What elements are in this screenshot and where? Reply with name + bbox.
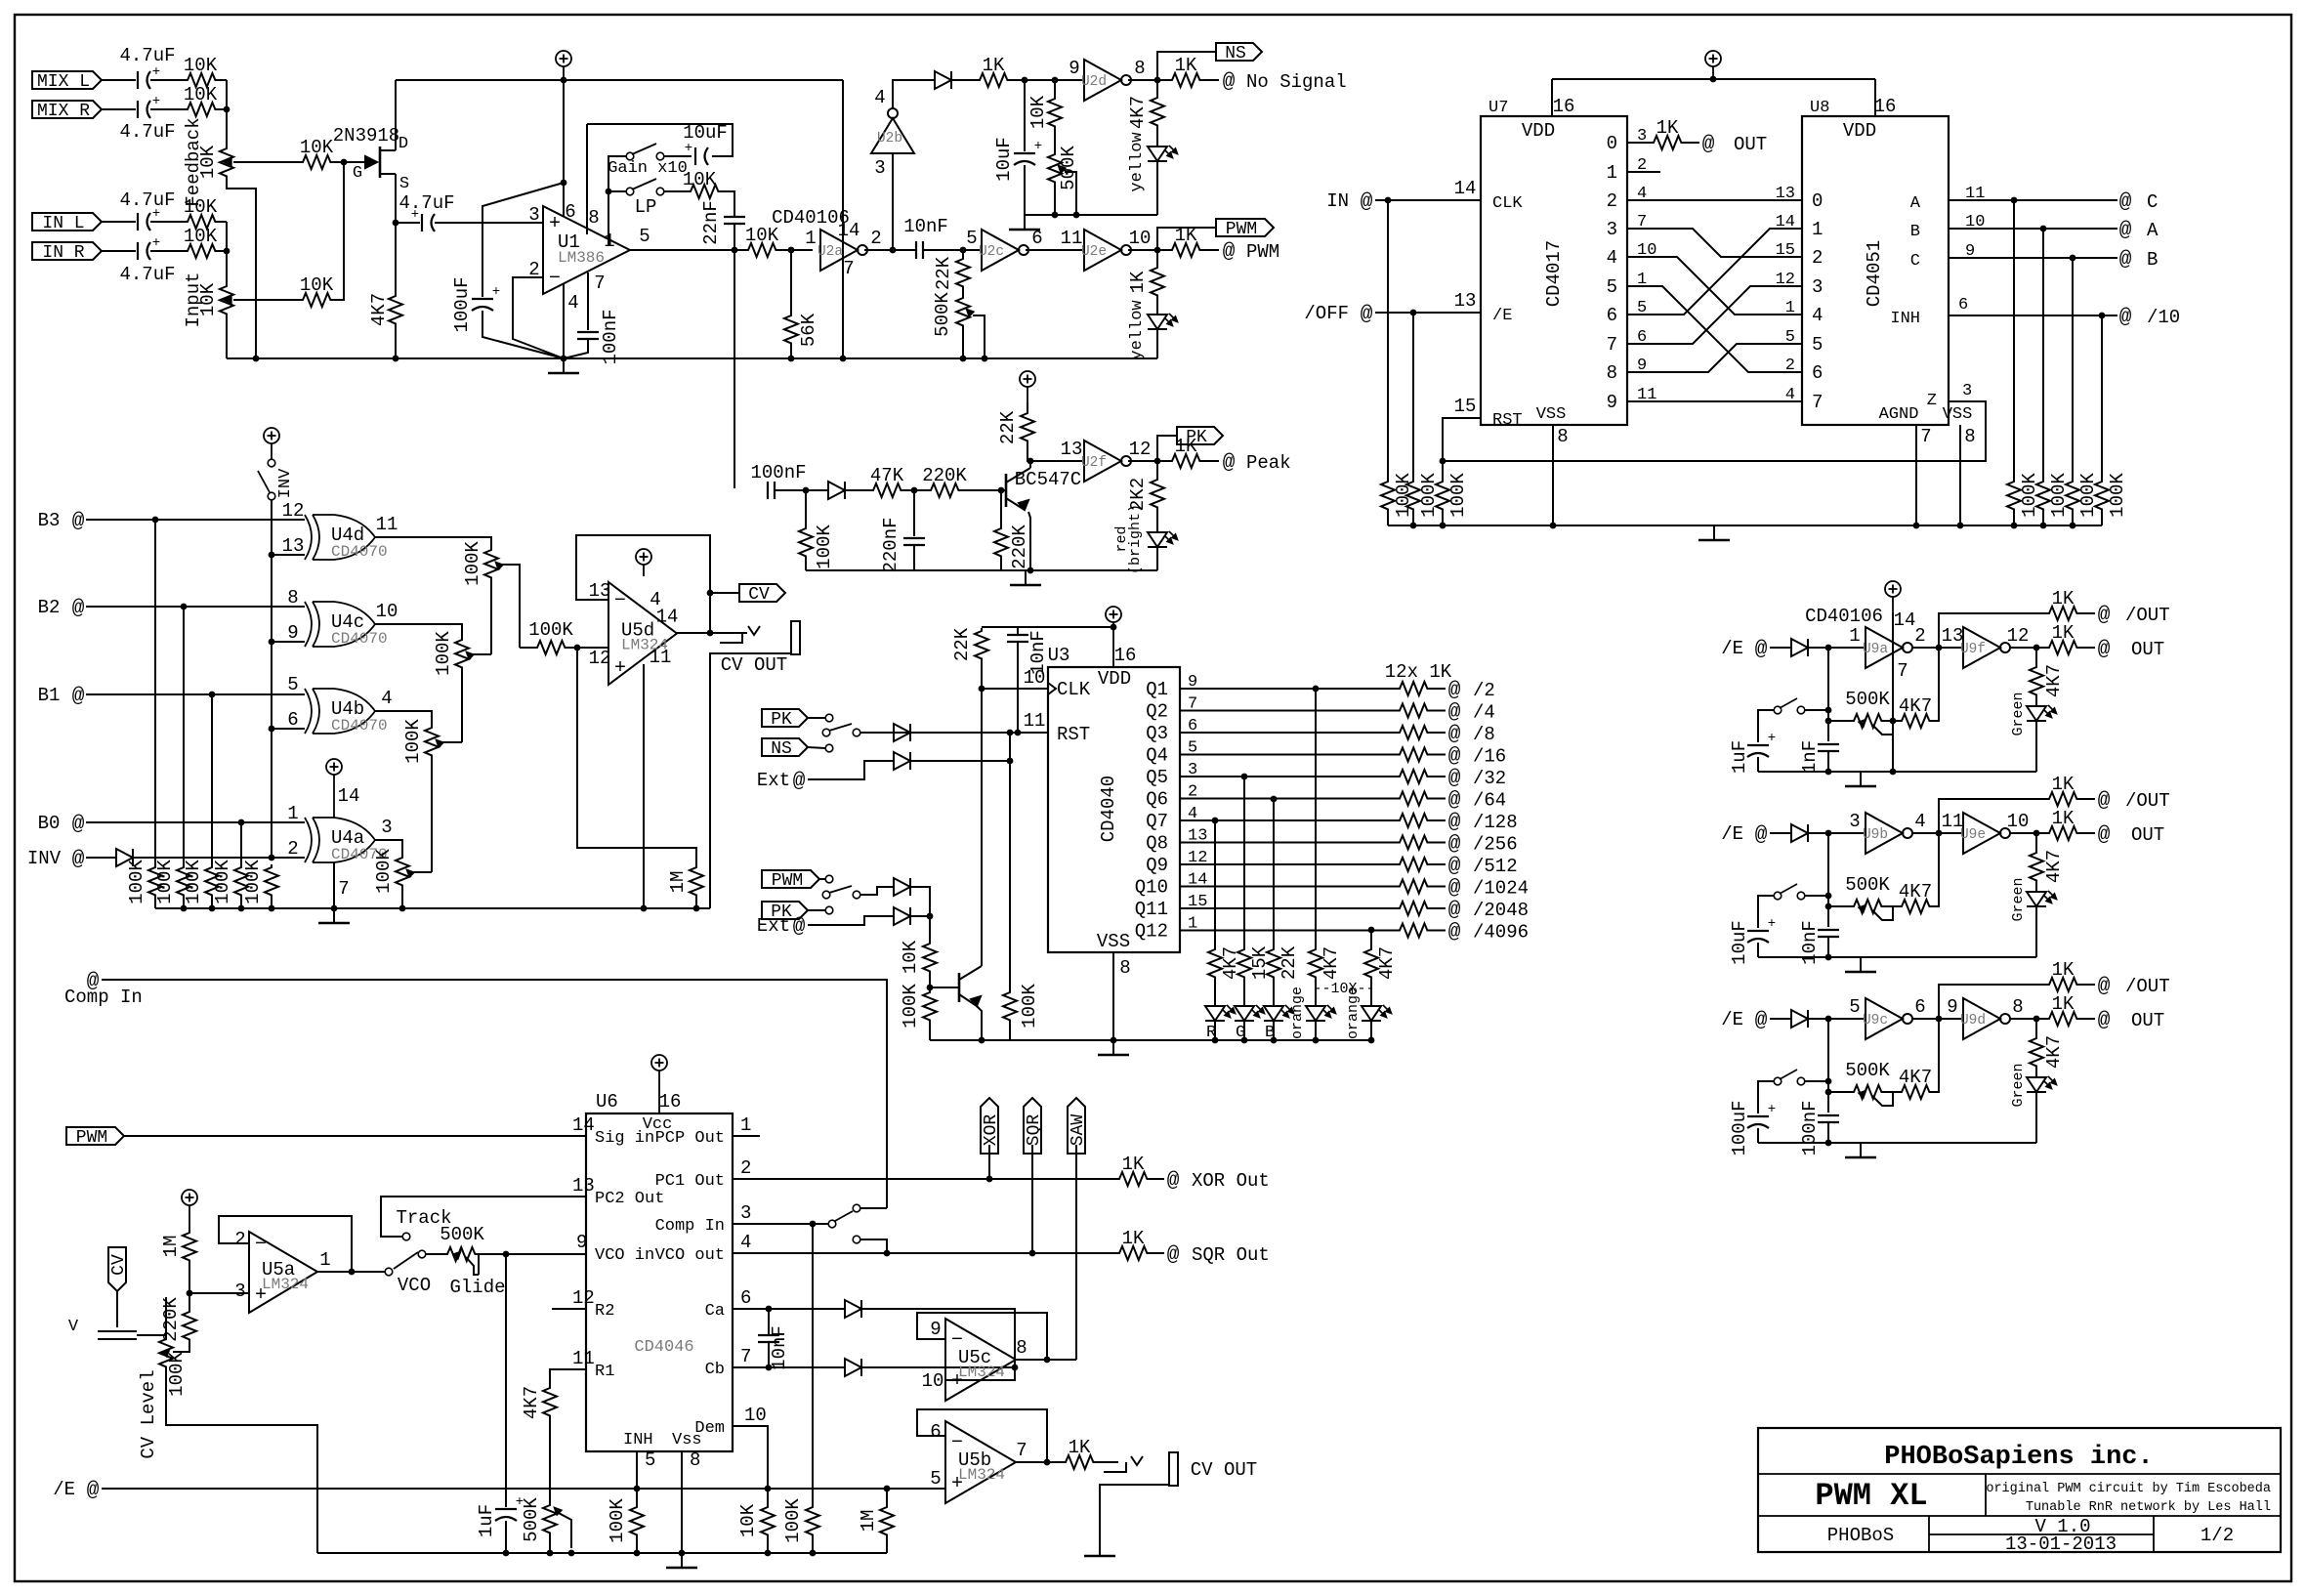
wire diode to gate U9a [1808, 647, 1866, 649]
svg-text:4: 4 [1607, 247, 1617, 269]
svg-text:RST: RST [1492, 411, 1523, 430]
svg-text:D: D [398, 135, 408, 153]
svg-text:/64: /64 [1473, 790, 1506, 812]
label /E U9b [1721, 823, 1743, 845]
svg-text:/10: /10 [2147, 307, 2180, 328]
ground CV OUT 2 [1084, 1541, 1115, 1556]
wire PK tag to sw [808, 909, 825, 911]
wire Cb diode out [861, 1366, 1015, 1368]
wire 220K stub [189, 1293, 190, 1309]
svg-text:INV: INV [27, 848, 62, 869]
diode U9c [1791, 1010, 1808, 1028]
resistor 10K MIX R [185, 103, 218, 116]
svg-text:3: 3 [740, 1202, 751, 1224]
svg-text:OUT: OUT [2131, 639, 2164, 660]
wire RC vertical U9b [1827, 833, 1829, 927]
svg-text:U2e: U2e [1081, 244, 1107, 260]
svg-text:U3: U3 [1048, 645, 1070, 666]
wire pot to 4K7 U9b [1884, 905, 1899, 907]
capacitor 22nF LP [724, 217, 745, 224]
junction LED rail x1244 [1212, 1037, 1219, 1044]
junction switch node U9a [1825, 707, 1832, 714]
resistor 15K LED x1274 [1237, 946, 1251, 980]
resistor 1K SQR [1116, 1228, 1150, 1260]
svg-text:8: 8 [1134, 58, 1145, 79]
inverter U2d [1069, 58, 1145, 101]
svg-text:1K: 1K [1122, 1228, 1145, 1249]
wire to XOR term [1150, 1178, 1164, 1180]
wire PWM tag to sw [819, 878, 825, 880]
svg-text:12x 1K: 12x 1K [1385, 661, 1452, 683]
wire 4K7 to 500K [549, 1418, 551, 1502]
pin label U6 1 [740, 1114, 751, 1136]
pin label U6 2 [740, 1157, 751, 1179]
capacitor 4.7uF MIX L [138, 64, 160, 89]
svg-text:1K: 1K [2052, 622, 2075, 644]
resistor 4K7 source [368, 293, 402, 327]
wire sw to PC1sel [860, 1207, 887, 1209]
svg-text:13: 13 [1942, 625, 1964, 647]
svg-text:8: 8 [1119, 957, 1130, 979]
junction U4 rail x247 [238, 905, 245, 912]
terminal /64 [1448, 790, 1507, 813]
label 10nF U3 [1027, 630, 1049, 675]
junction LED rail x1304 [1271, 1037, 1278, 1044]
junction U5d out [707, 630, 714, 637]
junction bus A [2040, 226, 2047, 232]
svg-text:2: 2 [234, 1229, 245, 1250]
svg-text:@: @ [72, 814, 85, 836]
label 100uF [451, 276, 473, 332]
wire 4K7 up to out U9b [1932, 833, 1939, 906]
terminal /128 [1448, 812, 1518, 834]
svg-text:Comp In: Comp In [655, 1217, 725, 1236]
pin label U6 3 [740, 1202, 751, 1224]
junction U4 rail x659 [641, 905, 648, 912]
junction U3 VSS rail [1111, 1037, 1117, 1044]
inverter U2b [871, 108, 914, 153]
wire 4K7 LED stub U9f [2035, 648, 2037, 664]
capacitor 4.7uF IN R [138, 235, 160, 260]
svg-text:/512: /512 [1473, 856, 1518, 877]
svg-text:−: − [255, 1234, 267, 1256]
svg-text:1M: 1M [160, 1236, 182, 1258]
wire U9b out [1912, 832, 1963, 834]
resistor 4K7 LED U9d [2030, 1035, 2043, 1069]
power +V U4 [326, 759, 342, 819]
wire 10K Dem to rail [767, 1537, 769, 1553]
label 100K U7 bank 2 [1418, 473, 1440, 518]
wire diode to gate U9c [1808, 1018, 1866, 1020]
svg-text:LM324: LM324 [958, 1466, 1005, 1484]
svg-text:Input: Input [183, 272, 204, 327]
junction pin3 node [187, 1290, 193, 1297]
svg-text:A: A [1910, 194, 1921, 213]
wire U8 bank 3 to rail [2072, 512, 2074, 525]
wire bus A down [2042, 229, 2044, 479]
resistor 100K clock [923, 989, 937, 1023]
power +V U9 [1885, 581, 1901, 612]
svg-text:VDD: VDD [1843, 120, 1876, 142]
wire tap x1404 down [1370, 930, 1372, 946]
junction 100K PK [803, 487, 810, 494]
svg-text:12: 12 [282, 500, 305, 522]
resistor 10K LP [688, 185, 721, 198]
wire LED to rail U9e [2035, 905, 2037, 907]
terminal /OUT U9b [2098, 790, 2170, 813]
junction LED rail x1347 [1313, 1037, 1320, 1044]
resistor 1K NS detect [977, 55, 1010, 87]
title credit 2 [2026, 1500, 2271, 1515]
wire mix4 wiper [409, 871, 432, 873]
svg-text:14: 14 [838, 220, 860, 241]
wire pot left U9a [1828, 720, 1851, 722]
wire to OUT term U9d [2079, 1018, 2095, 1020]
pin label Q5 [1146, 761, 1197, 788]
svg-text:15: 15 [1454, 396, 1477, 417]
power +V INV switch [264, 428, 279, 459]
wire 1uF vertical [505, 1254, 507, 1507]
IC U6 CD4046 box [586, 1091, 733, 1451]
svg-text:Q8: Q8 [1146, 833, 1168, 855]
svg-text:U2b: U2b [877, 131, 902, 147]
wire PC2 Out to Track [381, 1197, 586, 1237]
svg-text:100K: 100K [900, 984, 921, 1029]
wire INV to diode [86, 857, 116, 859]
svg-text:VCO out: VCO out [655, 1246, 725, 1265]
svg-text:B: B [2147, 249, 2158, 271]
wire cap to pin3 [435, 222, 543, 224]
svg-text:+: + [1034, 139, 1042, 154]
svg-text:4.7uF: 4.7uF [119, 45, 175, 66]
input tag IN L [32, 213, 102, 233]
label 10uF gain [683, 122, 728, 144]
svg-text:@: @ [2119, 220, 2132, 242]
wire 100nF to gnd [564, 339, 588, 358]
label Ext 1 [757, 770, 790, 791]
wire U9f out [2010, 647, 2046, 649]
svg-text:@: @ [1448, 834, 1461, 857]
resistor 1K Q2 [1397, 704, 1430, 718]
wire 100nF to diode [775, 489, 828, 491]
resistor 1K /OUT U9c [2046, 959, 2079, 991]
potentiometer 500K U9c [1845, 1060, 1893, 1106]
svg-text:U9d: U9d [1960, 1013, 1986, 1029]
wire sw to VCOsel [860, 1239, 887, 1253]
svg-text:/8: /8 [1473, 724, 1495, 745]
wire 1K to terminal Q8 [1430, 842, 1446, 844]
title PWM XL [1815, 1478, 1927, 1514]
wire U7.5-U8.6 [1627, 286, 1802, 372]
svg-text:@: @ [2098, 976, 2111, 998]
wire CLK [982, 688, 1048, 690]
wire switch left U9b [1758, 896, 1774, 928]
wire 10nF to U2c [923, 249, 982, 251]
label Comp In [64, 987, 143, 1008]
junction U4c pin9 [269, 639, 275, 646]
svg-text:1: 1 [805, 228, 816, 249]
junction CompIn 100K [810, 1221, 817, 1228]
diode clock 2 Ext [894, 907, 910, 925]
svg-text:16: 16 [1874, 96, 1897, 117]
junction 220nF [911, 487, 918, 494]
junction CV tag tap [707, 590, 714, 597]
resistor 1M U5b [880, 1504, 894, 1537]
svg-text:PK: PK [771, 710, 792, 730]
svg-text:yellow: yellow [1128, 300, 1147, 360]
junction Ca 10nF [766, 1306, 773, 1313]
resistor 1K Q4 [1397, 748, 1430, 762]
terminal B3 [72, 511, 85, 533]
wire 100K to gnd rail [1009, 1023, 1011, 1040]
wire gain loop top [587, 124, 733, 156]
wire CV pot wiper [173, 1351, 189, 1353]
pin label Q11 [1135, 893, 1208, 920]
svg-text:220K: 220K [1009, 525, 1030, 569]
wire B0 to U4a [86, 821, 305, 823]
junction V+ node U1 [561, 180, 567, 187]
power +V U5d [636, 549, 651, 576]
jack CV in [68, 1318, 137, 1339]
pin labels U9d [1947, 996, 2023, 1018]
svg-text:8: 8 [1016, 1337, 1027, 1359]
svg-text:13: 13 [1454, 290, 1477, 312]
svg-text:@: @ [793, 771, 806, 793]
wire 10K up to gate [333, 162, 344, 300]
switch LP [626, 179, 664, 218]
junction INH tap [634, 1486, 641, 1492]
svg-text:1K: 1K [1175, 436, 1197, 457]
svg-text:14: 14 [1894, 609, 1916, 631]
svg-text:5: 5 [1849, 996, 1860, 1018]
wire IN L to cap [102, 221, 136, 223]
svg-text:@: @ [1702, 134, 1715, 156]
svg-text:1K: 1K [2052, 774, 2075, 795]
wire Dem [733, 1426, 768, 1504]
junction RC node U9c [1825, 1016, 1832, 1023]
pin label 8 U8 [1964, 426, 1975, 447]
input tag MIX L [32, 71, 102, 92]
diode reset 2 Ext [894, 752, 910, 770]
tag CV in [108, 1247, 129, 1291]
svg-text:PWM: PWM [1226, 220, 1257, 239]
svg-text:2N3918: 2N3918 [333, 125, 399, 147]
resistor 1M U5d [690, 864, 703, 898]
pin label Q10 [1135, 871, 1208, 899]
label /E U9c [1721, 1009, 1743, 1030]
wire 22K stub [962, 250, 964, 256]
junction U4 rail x342 [331, 905, 338, 912]
junction OUT node U9d [2033, 1016, 2040, 1023]
pin label 10 U3 [1024, 667, 1046, 689]
switch range U9c [1774, 1070, 1805, 1085]
junction RC node U9a [1825, 645, 1832, 651]
wire diode to 1K [951, 79, 977, 81]
wire 100K RST down [1009, 733, 1011, 989]
svg-text:XOR: XOR [982, 1114, 1001, 1147]
wire U2d out [1128, 79, 1169, 81]
pin labels U9a [1849, 625, 1925, 647]
svg-text:7: 7 [1920, 426, 1931, 447]
pin label U8 in 5 [1785, 328, 1824, 356]
wire pot left U9b [1828, 905, 1851, 907]
svg-text:SAW: SAW [1069, 1114, 1088, 1147]
svg-text:1uF: 1uF [476, 1504, 497, 1537]
svg-text:@: @ [2119, 249, 2132, 272]
inverter U9e [1960, 813, 2010, 854]
wire 10K to pot [1054, 129, 1056, 151]
wire cap stub2 [768, 1342, 770, 1367]
svg-text:10uF: 10uF [683, 122, 728, 144]
wire /E to diode U9b [1770, 832, 1791, 834]
resistor 100K bank 5 [265, 864, 278, 898]
wire NS tag up [1157, 52, 1216, 80]
svg-text:@: @ [2098, 790, 2111, 813]
svg-text:100uF: 100uF [1729, 1100, 1750, 1155]
terminal No Signal [1223, 71, 1347, 94]
wire 4K7 to LED [1370, 980, 1372, 1006]
IC U8 CD4051 box [1802, 96, 1972, 425]
capacitor 220nF PK [903, 538, 925, 545]
wire switch right U9b [1805, 895, 1828, 897]
wire tap x1244 down [1214, 820, 1216, 946]
wire Ca diode out [861, 1309, 1015, 1380]
junction cap rail U9a [1825, 769, 1832, 776]
svg-text:500K: 500K [440, 1224, 484, 1245]
junction LP node [606, 189, 612, 195]
wire bus B1 down [211, 694, 213, 864]
junction bus C [2011, 197, 2018, 204]
label orange x1404 [1345, 987, 1362, 1039]
resistor 47K PK [870, 465, 904, 497]
svg-text:U2f: U2f [1081, 455, 1107, 471]
label 1uF VCO [476, 1504, 497, 1537]
wire NS tag to sw [808, 747, 825, 748]
svg-text:/2: /2 [1473, 680, 1495, 701]
junction U6 rail x832 [810, 1550, 817, 1557]
svg-text:100nF: 100nF [750, 462, 806, 483]
svg-text:1: 1 [740, 1114, 751, 1136]
junction Q tap x1404 [1368, 927, 1375, 934]
tag XOR [981, 1098, 1001, 1154]
ground PK [1010, 570, 1041, 585]
wire RC vertical U9c [1827, 1019, 1829, 1113]
terminal OUT U9e [2098, 824, 2165, 847]
label 12x 1K [1385, 661, 1452, 683]
label 22K PK [997, 410, 1019, 444]
power +V PK [1020, 371, 1035, 402]
resistor 1K Q12 [1397, 924, 1430, 938]
wire mix1 wiper [498, 565, 520, 648]
wire Q7 [1180, 819, 1397, 821]
svg-text:+: + [1768, 1102, 1776, 1117]
svg-text:10uF: 10uF [993, 137, 1015, 182]
pin label Q12 [1135, 915, 1197, 943]
wire CV tag stub [710, 593, 739, 633]
svg-text:100K: 100K [1447, 473, 1469, 518]
power +V supply top-left [556, 51, 571, 80]
svg-text:@: @ [2119, 191, 2132, 214]
wire 1K to terminal Q9 [1430, 863, 1446, 865]
svg-text:CV: CV [748, 585, 770, 605]
resistor 100K U8 bank 2 [2036, 479, 2050, 512]
svg-text:10K: 10K [300, 137, 334, 158]
svg-text:Green: Green [2010, 692, 2027, 735]
wire 220nF to rail [913, 545, 915, 570]
label 4K7 R1 [521, 1386, 542, 1419]
label 4.7uF U1 input [398, 192, 454, 214]
resistor 56K [784, 313, 798, 346]
terminal INV [72, 849, 85, 871]
svg-text:−: − [549, 268, 561, 290]
wire cap to resistor IN R [150, 250, 185, 252]
svg-text:OUT: OUT [2131, 1010, 2164, 1031]
terminal C [2119, 191, 2159, 214]
wire U4c out [375, 624, 462, 637]
terminal OUT U9d [2098, 1010, 2165, 1032]
wire 1M to rail [695, 898, 697, 908]
junction wiper rail [982, 356, 988, 362]
junction diode join [1012, 1365, 1019, 1371]
label red (bright) [1113, 504, 1144, 574]
resistor 4K7 LED x1244 [1208, 946, 1222, 980]
input tag IN R [32, 242, 102, 263]
svg-text:13: 13 [589, 580, 611, 602]
svg-text:4K7: 4K7 [2043, 664, 2065, 697]
wire jack2 sleeve [1100, 1485, 1169, 1541]
junction Q tap x1347 [1313, 686, 1320, 693]
wire resistor out MIX R [218, 108, 227, 110]
power +V U3 [1106, 607, 1121, 667]
wire 1M branch [577, 648, 696, 864]
junction 100K RST [1007, 730, 1014, 736]
wire pin3 [189, 1292, 249, 1294]
svg-text:14: 14 [1454, 178, 1477, 199]
wire Ext2 to diode [808, 916, 894, 925]
svg-text:Green: Green [2010, 1063, 2027, 1107]
wire U8 out A [1949, 228, 2117, 230]
wire 1K to terminal Q10 [1430, 886, 1446, 888]
svg-text:1M: 1M [667, 871, 689, 894]
pin label U8 in 2 [1776, 241, 1824, 269]
wire cap to resistor MIX L [150, 79, 185, 81]
wire feedback wiper [233, 161, 300, 163]
junction U6 rail x563 [547, 1550, 554, 1557]
svg-text:4: 4 [650, 589, 660, 610]
pin label 13 U2f [1061, 439, 1083, 460]
wire gain left [608, 156, 626, 191]
resistor 100K U8 bank 1 [2007, 479, 2021, 512]
pin label U6 13 [572, 1175, 595, 1197]
label 100K bank 2 [154, 860, 176, 904]
wire 1nF to rail U9a [1827, 751, 1829, 772]
svg-text:PCP Out: PCP Out [655, 1129, 725, 1148]
svg-text:@: @ [1361, 191, 1373, 214]
label 100K bank 3 [183, 860, 204, 904]
wire MIX R to cap [102, 108, 136, 110]
wire MIX join vertical [226, 80, 228, 146]
wire to LED U9e [2035, 883, 2037, 892]
svg-text:/2048: /2048 [1473, 900, 1529, 921]
svg-text:INH: INH [623, 1431, 653, 1449]
wire 220K shunt to rail [1000, 559, 1002, 570]
wire 220K to base [961, 489, 1006, 491]
label 1uF U9a [1729, 740, 1750, 774]
junction 220K shunt [998, 487, 1005, 494]
wire cap to resistor IN L [150, 221, 185, 223]
svg-text:5: 5 [930, 1468, 941, 1490]
svg-text:U2c: U2c [979, 244, 1004, 260]
